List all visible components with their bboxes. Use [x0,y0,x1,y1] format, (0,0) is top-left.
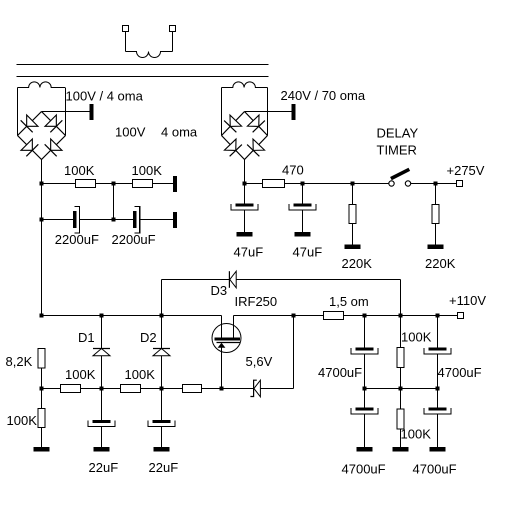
wire rail4 segment A [42,388,61,390]
resistor 100K (rail4 right) [121,385,141,393]
svg-text:22uF: 22uF [149,460,179,475]
capacitor 22uF (right) [153,420,171,423]
transistor Q1 top plate [215,338,241,341]
svg-text:100K: 100K [7,413,38,428]
wire 220K right to ground [435,224,437,245]
wire bleeder to ground [400,429,402,447]
wire BR2 bridge right arm [267,88,269,136]
terminal rail2 right [173,212,177,228]
ground branch2 [393,447,409,452]
resistor 220K (right) lead [435,184,437,205]
capacitor 4700uF (upper left) [356,348,374,351]
wire rail4 node to 100K [41,389,43,409]
wire 470 rail segment B [285,183,353,185]
capacitor 47uF (left) lead [244,184,246,204]
resistor 220K (left) [349,205,356,224]
wire 470 rail segment A [245,183,263,185]
resistor 100K (rail1 right) [133,180,153,188]
wire rail4 segment C [141,388,183,390]
svg-text:470: 470 [282,163,304,178]
junction rail4 D1 [100,387,104,391]
capacitor 4700uF (lower right) lead [437,389,439,408]
junction rail3 branch2 [399,314,403,318]
junction rail3 zener return [292,314,296,318]
ground 47uF left [237,232,253,237]
ground branch3 [430,447,446,452]
wire BR1 bridge diamond edges [18,112,42,136]
svg-text:D3: D3 [211,283,228,298]
capacitor 47uF (right) lead [302,184,304,204]
ground 47uF right [295,232,311,237]
svg-text:4700uF: 4700uF [342,462,386,477]
wire D3 rail right riser [400,280,402,316]
zener diode D2 top lead [161,316,163,349]
junction rail4 D2 [160,387,164,391]
transformer primary terminal square left [123,26,129,32]
svg-text:100V: 100V [115,125,146,140]
terminal +275V [457,181,463,187]
zener diode D1 bottom lead [101,356,103,389]
svg-text:47uF: 47uF [293,245,323,260]
svg-text:+110V: +110V [449,293,486,308]
junction rail2 mid [112,218,116,222]
diode BR1 bridge upper-left [27,115,38,126]
svg-text:47uF: 47uF [234,245,264,260]
diode BR2 bridge upper-right [247,115,259,126]
zener diode D2 bottom lead [161,356,163,389]
junction rail2 left [40,218,44,222]
junction midrail branch2 [399,387,403,391]
resistor 100K (left column) [38,409,45,428]
ground 22uF left [94,447,110,452]
inductor secondary winding left (100V) [18,82,66,88]
svg-text:+275V: +275V [447,163,485,178]
wire zener to riser [260,388,293,390]
wire rail3 segment D [344,315,458,317]
diode D3 [228,271,230,288]
wire D3 rail left riser [161,280,163,316]
transistor Q1 drain lead [221,316,223,339]
inductor secondary winding right (240V) [222,82,268,88]
diode BR1 bridge lower-right [51,139,62,150]
wire BR1 bridge left arm [17,88,19,136]
junction rail3 D1 [100,314,104,318]
capacitor 47uF (right) [294,204,312,207]
diode BR2 bridge lower-left [224,139,236,150]
terminal 100V / 4 oma [90,104,94,120]
svg-text:220K: 220K [425,256,456,271]
wire 100K to ground [41,428,43,448]
wire rail4 segment B [81,388,121,390]
svg-text:240V / 70 oma: 240V / 70 oma [281,88,366,103]
wire BR2 bridge left arm [221,88,223,136]
svg-text:D1: D1 [78,330,95,345]
resistor 220K (right) [432,205,439,224]
svg-text:TIMER: TIMER [377,143,417,158]
wire 220K left to ground [352,224,354,245]
resistor 8,2K [38,349,45,369]
wire 22uF left to ground [101,427,103,448]
wire BR2 bottom to 470 rail [244,160,246,184]
wire zener riser to rail3 [293,316,295,389]
wire D3 rail left segment [162,279,230,281]
wire branch1 to ground [364,414,366,447]
junction 220K right [434,182,438,186]
wire BR1 bottom to rail1 [41,160,43,184]
capacitor 4700uF (upper right) [429,348,447,351]
wire primary right lead [172,32,174,52]
wire BR1 output to 100V terminal [42,111,90,113]
transistor Q1 gate lead [233,316,235,339]
wire rail3 segment A [42,315,222,317]
transistor Q1 arrow [218,343,226,348]
resistor 100K (bleeder upper) [397,348,404,368]
junction 220K left [351,182,355,186]
svg-text:5,6V: 5,6V [246,354,273,369]
wire midrail [365,388,438,390]
capacitor 2200uF (right) [133,211,137,228]
wire branch3 to ground [437,414,439,447]
wire rail2 segment C [140,219,173,221]
wire left column rail2 to rail3 [41,220,43,316]
junction 470 rail left [243,182,247,186]
terminal rail1 right [173,176,177,192]
wire BR1 bridge right arm [65,88,67,136]
svg-text:100K: 100K [401,427,432,442]
svg-text:D2: D2 [140,330,157,345]
diode BR2 bridge lower-right [253,139,265,150]
capacitor 22uF (left) lead [101,389,103,421]
junction rail3 D2 [160,314,164,318]
inductor primary winding [126,52,173,58]
wire rail1 segment A [42,183,76,185]
wire rail3 segment C [294,315,324,317]
transformer primary terminal square right [170,26,176,32]
svg-text:22uF: 22uF [89,460,119,475]
svg-text:IRF250: IRF250 [235,294,278,309]
junction rail4 left [40,387,44,391]
wire 47uF left to ground [244,210,246,232]
capacitor 22uF (right) lead [161,389,163,421]
ground left column [34,447,50,452]
capacitor 4700uF (lower left) lead [364,389,366,408]
svg-text:4 oma: 4 oma [161,125,198,140]
terminal +110V [458,313,464,319]
diode BR1 bridge upper-right [45,115,56,126]
transistor Q1 IRF250 body [212,324,241,353]
wire 47uF right to ground [302,210,304,232]
svg-text:2200uF: 2200uF [112,232,156,247]
terminal 240V / 70 oma [292,104,296,120]
svg-text:8,2K: 8,2K [6,354,33,369]
svg-text:DELAY: DELAY [377,126,419,141]
svg-text:220K: 220K [342,256,373,271]
junction rail1 mid [112,182,116,186]
wire BR2 bridge diamond edges [222,112,245,136]
svg-text:2200uF: 2200uF [55,232,99,247]
junction rail3 left column [40,314,44,318]
resistor 100K (rail4 left) [61,385,81,393]
wire rail2 segment A [42,219,73,221]
svg-text:100K: 100K [401,330,432,345]
wire branch3 mid [437,354,439,389]
junction 47uF cap 2 [301,182,305,186]
zener diode D1 top lead [101,316,103,349]
zener diode D1 [93,348,110,350]
ground 220K left [345,245,361,250]
svg-text:1,5 om: 1,5 om [329,294,369,309]
zener diode D2 [153,348,170,350]
svg-text:100V / 4 oma: 100V / 4 oma [66,89,144,104]
svg-text:4700uF: 4700uF [438,365,482,380]
junction rail1 left [40,182,44,186]
resistor 100K (bleeder lower) lead [400,389,402,410]
junction midrail branch3 [436,387,440,391]
wire rail4 segment D [202,388,254,390]
capacitor 4700uF (lower right) [429,408,447,411]
wire primary left lead [125,32,127,52]
wire rail1 to rail2 left [41,184,43,220]
transistor Q1 channel plate [217,342,241,344]
capacitor 4700uF (upper right) lead [437,316,439,348]
resistor 100K (bleeder lower) [397,409,404,429]
switch DELAY TIMER blade [391,169,409,178]
zener diode 5,6V [250,380,256,396]
wire to +275V terminal [436,183,457,185]
svg-text:100K: 100K [65,367,96,382]
wire 470 rail to switch [353,183,389,185]
wire BR2 output to 240V terminal [245,111,292,113]
capacitor 47uF (left) [236,204,254,207]
switch DELAY TIMER right contact [405,181,410,186]
transistor Q1 source lead [221,347,223,389]
svg-text:4700uF: 4700uF [318,365,362,380]
svg-text:4700uF: 4700uF [413,462,457,477]
diode BR1 bridge lower-left [21,139,32,150]
wire switch to 220K right [411,183,436,185]
wire rail1 segment B [96,183,133,185]
svg-text:100K: 100K [125,367,156,382]
resistor 470 [263,180,285,188]
capacitor 4700uF (lower left) [356,408,374,411]
junction midrail branch1 [363,387,367,391]
wire D3 rail right segment [236,279,400,281]
junction rail4 source [220,387,224,391]
resistor rail4 unlabeled [183,385,202,393]
wire 8,2K to rail4 [41,368,43,389]
ground 220K right [428,245,444,250]
capacitor 2200uF (left) [73,211,77,228]
resistor 1,5 om [324,312,344,320]
resistor 220K (left) lead [352,184,354,205]
ground 22uF right [154,447,170,452]
junction rail3 branch1 [363,314,367,318]
transformer T1 core [17,64,269,66]
wire rail2 segment B [80,219,133,221]
capacitor 4700uF (upper left) lead [364,316,366,348]
junction rail3 branch3 [436,314,440,318]
wire 22uF right to ground [161,427,163,448]
svg-text:100K: 100K [64,163,95,178]
diode BR2 bridge upper-left [230,115,242,126]
wire branch1 mid [364,354,366,389]
switch DELAY TIMER left contact [389,181,394,186]
resistor 100K (rail1 left) [76,180,96,188]
wire rail1 to rail2 mid [113,184,115,220]
wire rail1 segment C [153,183,174,185]
ground branch1 [357,447,373,452]
svg-text:100K: 100K [132,163,163,178]
capacitor 22uF (left) [93,420,111,423]
wire rail3 segment B [234,315,294,317]
wire bleeder mid [400,368,402,389]
resistor 100K (bleeder upper) lead [400,316,402,348]
